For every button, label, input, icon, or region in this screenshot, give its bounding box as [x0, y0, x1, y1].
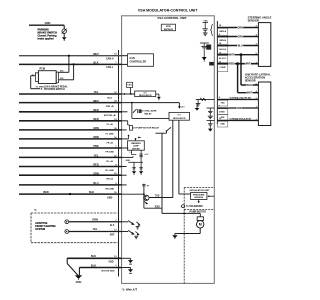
wire [127, 121, 129, 125]
svg-text:DRIVER: DRIVER [132, 148, 140, 150]
label RED [229, 62, 235, 65]
wire PCM to *1 GRN note row [31, 75, 36, 77]
wire [63, 33, 65, 37]
svg-text:MOTOR GND: MOTOR GND [102, 271, 115, 273]
wire to yaw sensor [241, 84, 258, 86]
wire pump motor feed [162, 212, 200, 214]
svg-text:MODULATOR UNIT: MODULATOR UNIT [190, 189, 210, 192]
left connector line [118, 50, 120, 277]
stub [122, 184, 127, 186]
regulator 1 output arrow [156, 93, 159, 95]
pump motor M [197, 221, 204, 228]
svg-text:GRN: GRN [93, 172, 99, 175]
wire BLU RR GND [19, 184, 122, 186]
wire driver to ground rail [140, 150, 142, 162]
label WHT [229, 53, 235, 56]
5V regulator 1 box [135, 91, 156, 97]
wire to yaw sensor [238, 92, 259, 94]
stub ARF [122, 231, 129, 233]
svg-text:GRN-B: GRN-B [219, 40, 226, 42]
svg-text:FR +B: FR +B [107, 142, 114, 144]
wire to 5V regulator 2 [132, 117, 169, 119]
svg-text:SYSTEM: SYSTEM [35, 228, 45, 231]
svg-text:E16: E16 [60, 78, 63, 80]
svg-text:TXD: TXD [155, 196, 160, 198]
capacitor network 2 [200, 42, 209, 44]
svg-text:SENSOR: SENSOR [194, 197, 203, 199]
wire [175, 233, 200, 235]
stub MOTOR GND [122, 267, 131, 269]
PCM right connector [56, 72, 58, 83]
wire TXD [149, 197, 173, 199]
svg-text:FSR +B: FSR +B [106, 106, 114, 108]
svg-text:ARF: ARF [110, 234, 115, 237]
wire row6 to driver box [135, 139, 137, 141]
CPU box [161, 24, 175, 31]
pressure sensor box [191, 192, 207, 199]
svg-text:RED: RED [93, 118, 98, 121]
stub [122, 156, 133, 158]
svg-text:VSA CONTROL UNIT: VSA CONTROL UNIT [157, 16, 187, 20]
CAN controller box [128, 54, 154, 67]
wire GRN to steering sensor [217, 36, 258, 38]
ground [62, 37, 67, 40]
fail-safe relay contact [133, 109, 137, 113]
transistor Q3 arrow [128, 221, 133, 225]
arrow below pressure sensor [198, 200, 200, 202]
svg-text:RR GND: RR GND [105, 188, 114, 190]
wire to pressure sensor [179, 193, 191, 195]
wire BLK MOTOR GND [79, 267, 121, 269]
wire RXD [144, 207, 162, 209]
svg-text:BLK: BLK [93, 62, 98, 65]
svg-text:LAMP: LAMP [133, 145, 139, 148]
svg-text:WARNING: WARNING [131, 142, 141, 145]
svg-text:BLK: BLK [91, 255, 96, 258]
svg-text:CAN-H: CAN-H [106, 57, 114, 60]
svg-text:*1: With A/T: *1: With A/T [122, 287, 138, 291]
svg-text:ALF: ALF [110, 224, 115, 227]
svg-text:MTS/: MTS/ [166, 26, 171, 28]
wire CAN-L BLK [19, 63, 122, 65]
svg-text:RED: RED [93, 109, 98, 112]
right connector line [216, 21, 218, 124]
stub GND [122, 257, 131, 259]
wire *1 GRN note [31, 88, 41, 90]
wire CAN-H branch [240, 55, 242, 85]
stub [122, 147, 129, 149]
svg-text:CONTROLLER: CONTROLLER [130, 60, 147, 63]
ground rail [128, 161, 143, 163]
svg-text:MOTOR +B: MOTOR +B [104, 115, 116, 117]
wire RED-BLK GND [19, 193, 122, 195]
svg-text:RELAY: RELAY [144, 112, 152, 115]
junction [73, 63, 75, 65]
wire CAN-H tap [68, 56, 70, 73]
svg-text:GND: GND [108, 261, 113, 263]
stub row5 [122, 129, 127, 131]
svg-text:POSITION SWITCH: POSITION SWITCH [44, 89, 65, 91]
wire ORN to steering sensor [217, 27, 258, 29]
wire [199, 213, 201, 216]
wire [199, 228, 201, 234]
svg-text:WHT: WHT [229, 54, 235, 57]
fail-safe relay coil [140, 110, 142, 113]
CPU sub box [127, 82, 133, 87]
wire V1 pump motor feed [161, 133, 163, 213]
wire WHT FSR +B [19, 102, 122, 104]
svg-text:15A/A BRAKE PEDAL: 15A/A BRAKE PEDAL [44, 85, 68, 88]
svg-text:SENSOR: SENSOR [245, 78, 256, 82]
dashed boundary [183, 210, 185, 284]
wire transistor feed V4 [143, 184, 145, 209]
wire to yaw sensor [217, 119, 258, 121]
svg-text:EEPROM: EEPROM [164, 29, 173, 31]
wire [174, 234, 176, 236]
ground [134, 235, 138, 237]
stub [122, 138, 129, 140]
wire BLU to steering sensor [217, 45, 258, 47]
transistor Q2 [144, 201, 148, 203]
svg-text:FL +B: FL +B [107, 124, 114, 126]
label WHT [245, 62, 251, 65]
capacitor to ground 1 [203, 22, 208, 24]
junction [183, 212, 185, 214]
wire E16 stub [58, 79, 73, 81]
svg-text:RED: RED [93, 164, 98, 167]
stub [122, 174, 127, 176]
svg-text:(*1 GRN): (*1 GRN) [36, 86, 44, 88]
wire RED RL GND [19, 166, 122, 168]
svg-text:YEL: YEL [93, 228, 98, 231]
arrow right of regulator 2 [196, 104, 198, 108]
arrow into pressure sensor [209, 195, 214, 197]
junction CAN-H [240, 53, 243, 56]
svg-text:GND: GND [220, 124, 225, 126]
svg-text:RXD: RXD [220, 111, 225, 113]
wire row12 into V4 [122, 193, 144, 195]
junction [131, 102, 133, 104]
wire RED FL +B [19, 120, 122, 122]
svg-text:RL +B: RL +B [107, 161, 114, 163]
svg-text:BLU: BLU [93, 182, 98, 185]
svg-text:COMP: COMP [219, 67, 226, 69]
svg-text:PCM: PCM [40, 68, 46, 71]
svg-text:FR GND: FR GND [106, 151, 115, 153]
svg-text:BLS: BLS [108, 97, 113, 99]
svg-text:WHT: WHT [247, 92, 253, 95]
label GRN [236, 106, 242, 109]
svg-text:REGULATOR: REGULATOR [173, 117, 186, 120]
svg-text:CPU: CPU [127, 85, 132, 87]
stub row3 [122, 111, 128, 113]
svg-text:BLU: BLU [238, 45, 243, 48]
svg-text:GRN: GRN [236, 107, 242, 110]
stub [122, 166, 127, 168]
svg-text:VSA MODULATOR-CONTROL UNIT: VSA MODULATOR-CONTROL UNIT [138, 9, 198, 13]
splice [69, 193, 71, 195]
svg-text:IND: IND [221, 117, 225, 119]
wire CAN-H WHT [19, 55, 122, 57]
modulator unit dashed box [184, 187, 214, 189]
svg-text:ORN: ORN [93, 136, 99, 139]
wire to regulator 2 feed [178, 103, 180, 107]
component on CAN row [210, 62, 214, 65]
svg-text:E15: E15 [60, 71, 63, 73]
svg-text:RED: RED [229, 63, 234, 66]
svg-text:GND: GND [125, 160, 130, 162]
wire parking brake switch GRN [29, 24, 64, 26]
wire [78, 268, 80, 276]
PCM box [38, 71, 56, 84]
svg-text:BLK: BLK [89, 191, 94, 194]
wire diagonal to ground [67, 264, 78, 276]
svg-text:GND: GND [107, 198, 112, 200]
wire CAN-L branch [237, 64, 239, 93]
svg-text:IG-VCC: IG-VCC [219, 58, 227, 60]
wire GRN FL GND [19, 129, 122, 131]
wire [66, 258, 68, 263]
wire GRN AFS [69, 221, 122, 223]
junction [68, 55, 70, 57]
wire YEL RL +B [19, 156, 122, 158]
label WHT [247, 91, 253, 94]
svg-text:YEL: YEL [94, 155, 99, 158]
pump motor relay contact [167, 127, 172, 131]
wire ORN FR +B [19, 138, 122, 140]
adaptive front-lighting system dashed box [31, 212, 118, 214]
ground [136, 226, 140, 228]
junction CAN-L [236, 62, 239, 65]
svg-text:RED: RED [43, 191, 48, 194]
pump motor relay coil [130, 125, 133, 130]
svg-text:+5 V: +5 V [144, 154, 149, 156]
wire to yaw sensor [217, 98, 258, 100]
wire PNK FR GND [19, 147, 122, 149]
svg-text:WHT: WHT [93, 53, 99, 56]
wire interior row1 [122, 93, 135, 95]
wire BLK GND [67, 257, 121, 259]
svg-text:PNK: PNK [93, 145, 98, 148]
svg-text:YEL: YEL [94, 91, 99, 94]
svg-text:GRN: GRN [92, 218, 98, 221]
svg-text:BLU-A: BLU-A [219, 48, 226, 51]
VSA control unit box [122, 16, 215, 284]
parking brake switch [62, 29, 66, 33]
PCM left connector [35, 73, 38, 82]
svg-text:SENSOR: SENSOR [248, 18, 259, 22]
svg-text:(*3 FAIL-SAFE: (*3 FAIL-SAFE [142, 110, 157, 113]
wire relay output [156, 132, 167, 134]
wire WHT to steering sensor [217, 54, 258, 56]
svg-text:TXD: TXD [221, 103, 226, 105]
wire V2 TXD [172, 120, 174, 197]
wire YEL AFS [69, 231, 122, 233]
wire RED MOTOR +B [19, 111, 122, 113]
svg-text:FL GND: FL GND [106, 133, 115, 135]
wire [122, 55, 128, 57]
internal resistor and grounds mid right [196, 98, 215, 100]
svg-text:WHT: WHT [93, 100, 99, 103]
yaw rate-lateral acceleration sensor box [258, 82, 270, 126]
internal ground [128, 260, 133, 263]
wire GRN RR +B [19, 174, 122, 176]
transistor Q1 TXD [144, 195, 149, 200]
svg-text:G502: G502 [76, 281, 83, 284]
pump motor terminal [197, 217, 203, 221]
wire interior row4 [122, 120, 128, 122]
wire relay branch [131, 103, 133, 119]
transistor Q4 arrow [128, 230, 133, 234]
svg-text:GRN: GRN [238, 36, 244, 39]
svg-text:GRN-A: GRN-A [219, 30, 226, 33]
svg-text:RXD: RXD [155, 206, 160, 208]
svg-text:To SOLENOIDS: To SOLENOIDS [186, 206, 203, 208]
brace pins [211, 24, 213, 35]
filter capacitors to ground [133, 162, 135, 171]
wire [63, 25, 65, 29]
wire GRN to yaw sensor [217, 107, 258, 109]
ground pump motor [172, 235, 178, 238]
svg-text:GRN: GRN [93, 127, 99, 130]
wire CAN-L tap [73, 64, 75, 79]
ground arrow [203, 51, 205, 57]
wire RED to steering sensor [217, 63, 258, 65]
wire V3 pressure sensor feed [178, 120, 180, 194]
svg-text:(*2 PUMP MOTOR RELAY: (*2 PUMP MOTOR RELAY [133, 126, 160, 129]
svg-text:brake applied: brake applied [38, 37, 55, 40]
svg-text:GRN: GRN [45, 21, 51, 25]
wire YEL BLS [19, 93, 122, 95]
svg-text:REGULATOR: REGULATOR [139, 94, 152, 97]
stub ALF [122, 221, 129, 223]
AFS connector terminals [65, 220, 69, 224]
wire [122, 63, 128, 65]
svg-text:BLK: BLK [91, 264, 96, 267]
wire interior row2 FSR +B [122, 102, 180, 104]
svg-text:WHT: WHT [245, 63, 251, 66]
label BLU [237, 44, 243, 47]
driver box [128, 141, 145, 150]
label BLK [247, 83, 253, 86]
svg-text:M: M [199, 223, 202, 227]
svg-text:RL GND: RL GND [106, 170, 115, 172]
svg-text:ORN: ORN [238, 27, 244, 30]
svg-text:RR +B: RR +B [106, 179, 113, 181]
wire [129, 88, 131, 95]
wire E15 stub [58, 71, 69, 73]
svg-text:*2 (WHT)▶ VSA OFF SW: *2 (WHT)▶ VSA OFF SW [229, 96, 251, 99]
label GRN [237, 35, 243, 38]
internal ground [128, 269, 133, 272]
component dark box [207, 45, 211, 50]
svg-text:*3 (RED)▶ MODULATOR: *3 (RED)▶ MODULATOR [229, 117, 251, 120]
label ORN [237, 26, 243, 29]
svg-text:PRESSURE: PRESSURE [193, 194, 205, 196]
svg-text:CAN-L: CAN-L [106, 66, 114, 69]
steering angle sensor box [258, 23, 270, 67]
to solenoids [180, 205, 183, 207]
svg-text:BLK: BLK [247, 84, 252, 87]
5V regulator 2 box [169, 112, 190, 120]
ground G502 [75, 275, 82, 279]
